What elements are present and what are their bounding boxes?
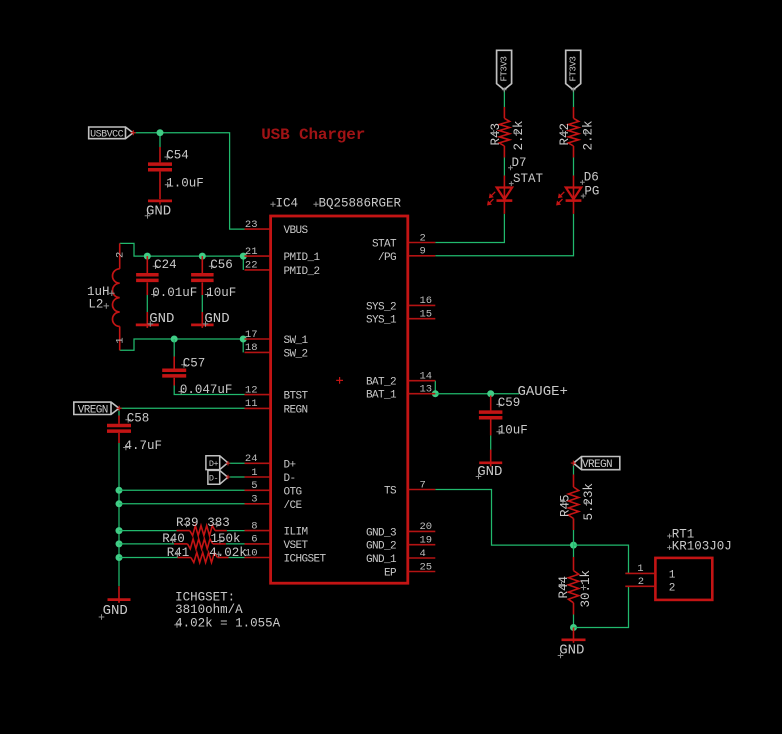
svg-text:USB Charger: USB Charger <box>261 126 365 144</box>
svg-text:C57: C57 <box>183 356 206 370</box>
svg-text:9: 9 <box>420 246 426 258</box>
D7 value label STAT <box>509 181 514 186</box>
capacitor C59 plates <box>479 410 503 414</box>
svg-text:R44: R44 <box>557 576 571 599</box>
svg-text:21: 21 <box>245 246 258 258</box>
resistor R44 pins <box>573 557 575 571</box>
wire TS pin 7 to divider <box>435 490 573 546</box>
ground GND below C56 <box>191 324 214 327</box>
capacitor C58 <box>118 416 120 424</box>
svg-text:D+: D+ <box>209 459 219 469</box>
svg-text:D6: D6 <box>584 171 599 185</box>
svg-text:BTST: BTST <box>284 391 309 403</box>
svg-text:383: 383 <box>207 516 230 530</box>
svg-text:2: 2 <box>420 232 426 244</box>
junction ICHGSET node <box>116 554 123 561</box>
LED D7 <box>497 188 512 200</box>
wire R45 to divider node <box>573 519 575 546</box>
wire bus to R41 <box>119 557 178 559</box>
IC4 pin 15 (SYS_1) <box>409 318 436 320</box>
svg-text:6: 6 <box>251 534 257 546</box>
wire C57 to BTST pin 12 <box>174 386 244 395</box>
IC4 pin 17 (SW_1) <box>245 338 271 340</box>
svg-text:0.01uF: 0.01uF <box>152 286 197 300</box>
svg-text:GND_3: GND_3 <box>366 527 396 539</box>
svg-text:1: 1 <box>669 570 676 582</box>
svg-text:FT3V3: FT3V3 <box>568 56 578 81</box>
svg-text:PG: PG <box>584 184 599 198</box>
svg-text:REGN: REGN <box>284 404 308 416</box>
svg-text:GND: GND <box>103 603 128 619</box>
IC4 pin 21 (PMID_1) <box>245 255 271 257</box>
junction C57 top node <box>171 336 178 343</box>
svg-text:13: 13 <box>420 384 433 396</box>
ground GND below C59 <box>479 461 502 464</box>
resistor R39 383 body <box>190 526 215 536</box>
junction ILIM node <box>116 527 123 534</box>
resistor R41 4.02k body <box>191 553 218 563</box>
wire FT3V3 flag to R42 <box>573 90 575 107</box>
svg-text:OTG: OTG <box>284 486 302 498</box>
RT1 reference label <box>667 534 672 539</box>
resistor R43 pins <box>503 107 505 118</box>
IC4 pin 18 (SW_2) <box>245 351 271 353</box>
svg-text:5.23k: 5.23k <box>582 483 596 521</box>
svg-text:4.7uF: 4.7uF <box>125 439 163 453</box>
svg-text:BAT_1: BAT_1 <box>366 390 397 402</box>
svg-text:2.2k: 2.2k <box>512 120 526 150</box>
IC4 pin 5 (OTG) <box>245 489 271 491</box>
svg-text:5: 5 <box>251 480 257 492</box>
svg-text:D-: D- <box>284 473 296 485</box>
RT1 value label KR103J0J <box>667 545 672 550</box>
op-amp / charger IC U-symbol outline IC4 BQ25886RGER <box>271 216 408 583</box>
IC4 pin 6 (VSET) <box>245 543 271 545</box>
svg-text:R41: R41 <box>167 546 190 560</box>
svg-text:2: 2 <box>115 252 127 258</box>
svg-text:14: 14 <box>420 371 433 383</box>
RT1 pin 2 <box>625 585 655 587</box>
wire /PG pin 9 to LED D6 <box>435 214 573 256</box>
svg-text:/CE: /CE <box>284 500 303 512</box>
svg-text:30.1k: 30.1k <box>579 570 593 608</box>
D7 reference label <box>508 165 513 170</box>
svg-text:18: 18 <box>245 342 258 354</box>
svg-text:7: 7 <box>420 479 426 491</box>
svg-text:R40: R40 <box>162 532 185 546</box>
svg-text:20: 20 <box>420 521 433 533</box>
junction C56 top node <box>199 253 206 260</box>
wire L2 pin2 to PMID_1 <box>120 243 244 256</box>
IC4 pin 25 (EP) <box>409 571 436 573</box>
svg-text:R42: R42 <box>558 123 572 146</box>
IC4 pin 24 (D+) <box>245 462 271 464</box>
capacitor C59 top pin <box>490 396 492 411</box>
supply flag FT3V3 (left) <box>497 50 512 90</box>
svg-text:GND: GND <box>559 643 584 659</box>
wire BAT_2 to BAT_1 tie <box>434 381 436 394</box>
svg-text:8: 8 <box>251 520 257 532</box>
svg-text:0.047uF: 0.047uF <box>180 383 233 397</box>
junction at pin 13 <box>432 390 439 397</box>
svg-text:C24: C24 <box>154 258 177 272</box>
svg-text:C54: C54 <box>166 149 189 163</box>
junction C59 top node <box>487 390 494 397</box>
wire bus to R39 <box>119 530 177 532</box>
svg-text:D7: D7 <box>512 156 527 170</box>
ground GND below C54 <box>148 200 172 203</box>
svg-text:24: 24 <box>245 453 258 465</box>
wire C59 to ground <box>490 435 492 450</box>
D6 value label PG <box>581 194 586 199</box>
svg-text:1: 1 <box>251 467 257 479</box>
capacitor C57 <box>173 357 175 369</box>
ground pin C24 <box>146 312 148 328</box>
svg-text:SW_2: SW_2 <box>284 348 308 360</box>
svg-text:15: 15 <box>420 309 433 321</box>
svg-text:4.02k: 4.02k <box>209 546 247 560</box>
resistor R44 30.1k body <box>568 571 578 603</box>
IC4 pin 12 (BTST) <box>245 394 271 396</box>
svg-text:VBUS: VBUS <box>284 225 309 237</box>
IC4 reference label <box>270 202 275 207</box>
ground below R44 <box>573 628 575 643</box>
L2 pin 2 <box>119 243 121 268</box>
wire VREGN flag to REGN pin 11 <box>119 407 244 409</box>
IC4 pin 14 (BAT_2) <box>409 380 436 382</box>
junction C24 top node <box>144 253 151 260</box>
svg-text:17: 17 <box>245 329 258 341</box>
signal flag D+ <box>206 456 228 470</box>
wire C56 to ground <box>201 295 203 312</box>
wire USBVCC to VBUS pin 23 <box>133 133 245 229</box>
svg-text:23: 23 <box>245 219 258 231</box>
wire bus to /CE pin 3 <box>119 503 245 505</box>
junction OTG node <box>116 487 123 494</box>
wire R44 to ground node <box>573 615 575 628</box>
svg-text:D-: D- <box>209 474 218 484</box>
resistor R42 pins <box>573 107 575 118</box>
svg-text:GND: GND <box>146 204 171 220</box>
thermistor RT1 body <box>655 558 712 600</box>
svg-text:GND: GND <box>149 311 174 327</box>
supply flag VREGN (left) <box>74 402 119 414</box>
wire VREGN flag to R45 <box>573 463 575 474</box>
IC4 pin 11 (REGN) <box>245 407 271 409</box>
resistor R40 pins <box>174 543 188 545</box>
IC4 pin 20 (GND_3) <box>409 530 436 532</box>
svg-text:VSET: VSET <box>284 540 309 552</box>
svg-text:2: 2 <box>669 583 676 595</box>
junction R45/R44 divider node <box>570 542 577 549</box>
svg-text:SW_1: SW_1 <box>284 335 309 347</box>
resistor R40 150k body <box>188 539 213 549</box>
ground GND below C24 <box>136 324 159 327</box>
IC4 pin 2 (STAT) <box>409 242 436 244</box>
svg-text:R39: R39 <box>176 516 199 530</box>
svg-text:2.2k: 2.2k <box>581 120 595 150</box>
IC4 pin 22 (PMID_2) <box>245 269 271 271</box>
junction at pin 21 <box>240 253 247 260</box>
supply flag VREGN (right) <box>573 457 619 470</box>
ground pin C59 <box>490 450 492 467</box>
wire C24 to ground <box>146 295 148 312</box>
svg-text:PMID_1: PMID_1 <box>284 252 321 264</box>
svg-text:12: 12 <box>245 384 258 396</box>
LED D6 <box>566 188 581 200</box>
svg-text:R43: R43 <box>489 123 503 146</box>
IC4 pin 1 (D-) <box>245 476 271 478</box>
svg-text:150k: 150k <box>211 532 241 546</box>
wire divider node to R44 <box>573 545 575 557</box>
svg-text:2: 2 <box>638 576 644 588</box>
capacitor C54 <box>159 147 161 162</box>
svg-text:10uF: 10uF <box>206 286 236 300</box>
supply flag FT3V3 (right) <box>566 50 581 90</box>
IC4 pin 23 (VBUS) <box>245 228 271 230</box>
svg-text:/PG: /PG <box>378 252 396 264</box>
svg-text:VREGN: VREGN <box>78 404 108 416</box>
wire SW_1 to SW_2 tie <box>242 339 244 352</box>
svg-text:GAUGE+: GAUGE+ <box>518 384 568 400</box>
resistor R39 pins <box>177 530 190 532</box>
svg-text:KR103J0J: KR103J0J <box>672 539 732 553</box>
svg-text:11: 11 <box>245 398 258 410</box>
wire SW node to C57 <box>173 339 175 357</box>
wire R43 to LED D7 anode <box>503 158 505 176</box>
svg-text:D+: D+ <box>284 459 296 471</box>
wire PMID_1 to PMID_2 tie <box>242 256 244 270</box>
svg-text:GND_1: GND_1 <box>366 554 397 566</box>
wire FT3V3 flag to R43 <box>503 90 505 107</box>
ground GND bar below C58 bus <box>108 598 131 601</box>
wire bus to R40 <box>119 543 174 545</box>
svg-text:STAT: STAT <box>513 172 544 186</box>
svg-text:22: 22 <box>245 260 258 272</box>
svg-text:C56: C56 <box>210 258 233 272</box>
IC4 pin 9 (/PG) <box>409 255 436 257</box>
svg-text:4: 4 <box>420 548 426 560</box>
svg-text:GND: GND <box>477 464 502 480</box>
ground pin C56 <box>201 312 203 328</box>
IC4 pin 7 (TS) <box>409 489 436 491</box>
svg-text:25: 25 <box>420 561 433 573</box>
svg-text:GND: GND <box>204 311 229 327</box>
wire divider node to RT1 pin 1 <box>574 545 629 573</box>
capacitor C57 plates <box>162 369 186 373</box>
svg-text:1: 1 <box>637 563 643 575</box>
signal flag D- <box>208 470 228 484</box>
svg-text:4.02k = 1.055A: 4.02k = 1.055A <box>175 617 281 631</box>
svg-text:L2: L2 <box>88 298 103 312</box>
resistor R41 pins <box>178 557 191 559</box>
supply flag USBVCC <box>89 127 133 139</box>
capacitor C24 <box>146 256 148 273</box>
wire R41 to ICHGSET pin 10 <box>229 557 245 559</box>
svg-text:1.0uF: 1.0uF <box>166 176 204 190</box>
wire R40 to VSET pin 6 <box>226 543 245 545</box>
resistor R45 pins <box>573 475 575 488</box>
junction USBVCC/C54 node <box>157 129 164 136</box>
svg-text:FT3V3: FT3V3 <box>499 56 509 81</box>
IC4 pin 16 (SYS_2) <box>409 304 436 306</box>
svg-text:3810ohm/A: 3810ohm/A <box>175 603 243 617</box>
resistor R43 2.2k body <box>499 118 509 146</box>
resistor R45 5.23k body <box>568 487 578 519</box>
D6 reference label <box>580 180 585 185</box>
svg-text:EP: EP <box>384 568 397 580</box>
svg-text:C58: C58 <box>127 411 150 425</box>
wire R42 to LED D6 anode <box>573 158 575 176</box>
IC4 pin 10 (ICHGSET) <box>245 557 271 559</box>
resistor R42 2.2k body <box>568 118 578 146</box>
LED D7 cathode pin <box>503 201 505 214</box>
capacitor C24 plates <box>136 273 159 277</box>
svg-text:BQ25886RGER: BQ25886RGER <box>319 197 402 211</box>
ground below C58 bus <box>118 586 120 603</box>
junction /CE node <box>116 500 123 507</box>
capacitor C54 plates <box>148 162 172 166</box>
svg-text:USBVCC: USBVCC <box>90 130 124 141</box>
svg-text:PMID_2: PMID_2 <box>284 266 320 278</box>
ground GND bar below R44 <box>562 638 586 641</box>
wire C58 bottom bus to ground <box>118 443 120 586</box>
IC4 pin 4 (GND_1) <box>409 557 436 559</box>
IC4 pin 13 (BAT_1) <box>409 393 436 395</box>
LED D6 cathode pin <box>573 201 575 214</box>
junction VSET node <box>116 540 123 547</box>
svg-text:SYS_2: SYS_2 <box>366 301 396 313</box>
svg-text:1: 1 <box>115 337 127 343</box>
svg-text:ICHGSET: ICHGSET <box>284 554 327 566</box>
svg-text:ILIM: ILIM <box>284 527 308 539</box>
IC4 value label BQ25886RGER <box>313 202 318 207</box>
capacitor C56 <box>201 256 203 273</box>
svg-text:TS: TS <box>384 486 397 498</box>
wire USBVCC to C54 <box>159 133 161 147</box>
svg-text:R45: R45 <box>559 494 573 517</box>
IC4 pin 8 (ILIM) <box>245 530 271 532</box>
svg-text:SYS_1: SYS_1 <box>366 315 397 327</box>
svg-text:STAT: STAT <box>372 239 397 251</box>
IC4 origin cross <box>336 377 343 384</box>
svg-text:BAT_2: BAT_2 <box>366 377 396 389</box>
svg-text:19: 19 <box>420 535 433 547</box>
wire D- flag to pin 1 <box>228 476 245 478</box>
wire BAT_1 to GAUGE+ label <box>435 393 519 395</box>
junction R44/RT1 ground node <box>570 624 577 631</box>
svg-text:IC4: IC4 <box>276 197 299 211</box>
svg-text:VREGN: VREGN <box>582 459 612 471</box>
LED D6 anode pin <box>573 176 575 200</box>
svg-text:10uF: 10uF <box>498 423 528 437</box>
capacitor C56 plates <box>191 273 214 277</box>
wire ground node to RT1 pin 2 <box>574 586 629 627</box>
svg-text:3: 3 <box>251 494 257 506</box>
IC4 pin 19 (GND_2) <box>409 544 436 546</box>
wire bus to OTG pin 5 <box>119 489 245 491</box>
junction at pin 17 <box>240 336 247 343</box>
IC4 pin 3 (/CE) <box>245 503 271 505</box>
wire R39 to ILIM pin 8 <box>227 530 245 532</box>
svg-text:16: 16 <box>420 295 433 307</box>
L2 pin 1 <box>119 326 121 350</box>
capacitor C58 plates <box>107 424 131 428</box>
svg-text:GND_2: GND_2 <box>366 541 396 553</box>
wire STAT pin 2 to LED D7 <box>435 214 504 243</box>
wire D+ flag to pin 24 <box>228 462 245 464</box>
wire VREGN node to C58 <box>118 408 120 415</box>
wire L2 pin1 to SW_1 <box>120 339 244 350</box>
LED D7 anode pin <box>503 176 505 200</box>
RT1 pin 1 <box>625 572 655 574</box>
